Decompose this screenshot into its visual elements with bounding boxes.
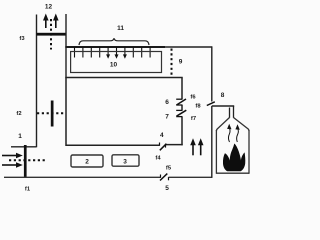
svg-text:1: 1: [18, 133, 22, 140]
spray ticks with arrowheads: [75, 47, 151, 59]
svg-text:12: 12: [45, 4, 53, 11]
duct 1 right wall: [65, 14, 67, 78]
chamber bottom right stub: [166, 144, 183, 146]
chamber left wall: [65, 78, 67, 147]
furnace feed pipe right wall: [233, 106, 235, 118]
svg-text:7: 7: [165, 114, 169, 121]
exhaust arrow left: [43, 14, 49, 29]
svg-text:2: 2: [85, 159, 89, 166]
switch 6: [176, 99, 186, 105]
recirculation arrow right: [198, 138, 204, 155]
right wall lower: [211, 106, 213, 178]
recirculation arrow left: [190, 138, 196, 155]
chamber top wall: [65, 77, 182, 79]
box 10: [71, 52, 162, 73]
bottom line right segment: [169, 176, 213, 178]
svg-text:f2: f2: [16, 111, 21, 117]
flame spark right: [235, 124, 239, 142]
furnace base: [216, 172, 249, 174]
svg-text:f5: f5: [166, 166, 172, 172]
top line over dryer: [65, 46, 165, 48]
flow f3 dotted line: [50, 19, 52, 50]
chamber right wall upper: [181, 78, 183, 100]
damper in chimney: [37, 33, 66, 36]
svg-text:9: 9: [179, 59, 183, 66]
furnace hood right slope: [234, 118, 250, 132]
flame spark left: [227, 124, 231, 142]
chamber right wall middle: [181, 105, 183, 110]
svg-text:4: 4: [160, 132, 164, 139]
svg-text:3: 3: [123, 158, 127, 165]
bottom line left segment: [4, 176, 161, 178]
box 2: [71, 155, 103, 167]
right wall upper: [211, 46, 213, 101]
furnace left wall: [215, 130, 217, 174]
inlet valve bar: [24, 145, 27, 177]
svg-text:6: 6: [165, 99, 169, 106]
flame: [223, 144, 245, 172]
svg-text:f6: f6: [190, 95, 196, 101]
furnace feed pipe horizontal: [212, 105, 234, 107]
inlet duct top wall: [11, 146, 37, 148]
svg-text:8: 8: [221, 92, 225, 99]
inlet arrow upper: [2, 153, 23, 159]
flow f9 dotted line: [171, 49, 173, 78]
switch 4: [160, 143, 167, 151]
chamber bottom wall: [66, 144, 160, 146]
damper 1 vertical bar: [51, 101, 54, 127]
flow f1 dotted line: [9, 159, 46, 161]
svg-text:f4: f4: [155, 156, 161, 162]
svg-text:f8: f8: [195, 104, 201, 110]
svg-text:5: 5: [165, 185, 169, 192]
svg-text:f7: f7: [191, 116, 196, 122]
furnace hood left slope: [216, 118, 229, 132]
svg-text:11: 11: [117, 25, 124, 32]
switch 7: [176, 110, 186, 116]
box 3: [112, 155, 139, 166]
switch 5: [160, 174, 169, 181]
svg-text:f3: f3: [19, 36, 25, 42]
inlet arrow lower: [2, 162, 23, 168]
exhaust arrow right: [53, 14, 59, 29]
brace 11: [79, 38, 149, 45]
furnace feed pipe left wall: [229, 108, 231, 118]
svg-text:10: 10: [110, 62, 118, 69]
chamber right wall lower: [181, 117, 183, 146]
furnace right wall: [248, 130, 250, 174]
svg-text:f1: f1: [25, 187, 31, 193]
duct 1 left wall: [36, 15, 38, 148]
switch 8: [207, 102, 215, 106]
flow f2 dotted line: [37, 112, 67, 114]
